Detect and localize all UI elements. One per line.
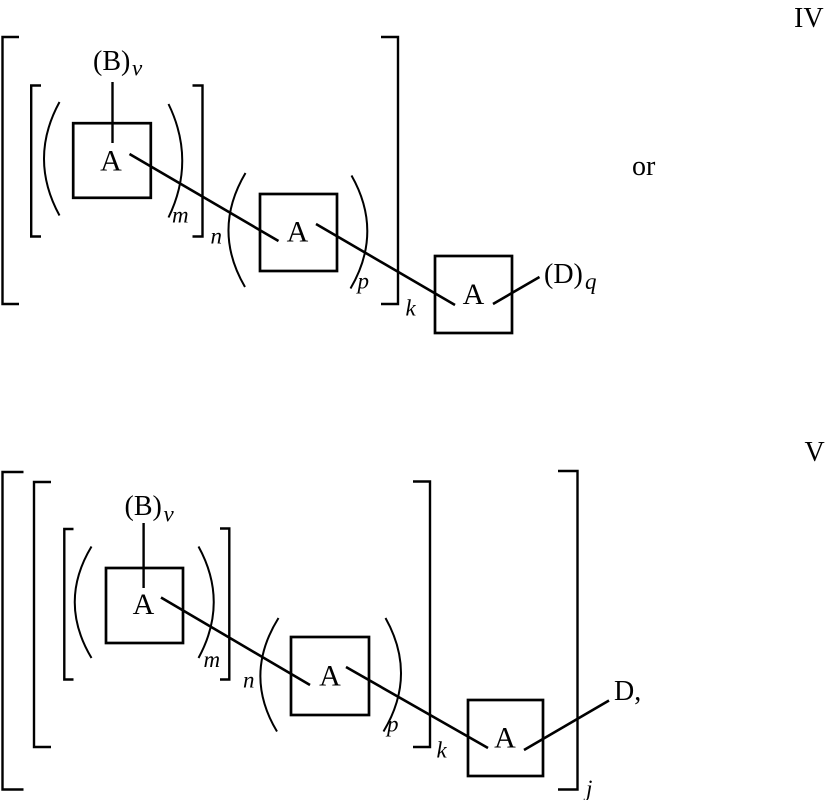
svg-text:A: A xyxy=(100,145,122,178)
svg-text:k: k xyxy=(437,738,448,763)
svg-text:V: V xyxy=(805,437,825,468)
svg-text:A: A xyxy=(319,660,341,693)
svg-text:A: A xyxy=(287,216,309,249)
svg-text:A: A xyxy=(133,588,155,621)
svg-text:A: A xyxy=(494,722,516,755)
svg-text:n: n xyxy=(243,668,255,693)
svg-text:(B): (B) xyxy=(93,46,130,77)
svg-text:q: q xyxy=(585,269,597,294)
svg-text:IV: IV xyxy=(794,3,824,34)
svg-text:(D): (D) xyxy=(544,259,583,290)
svg-text:or: or xyxy=(632,151,656,182)
svg-text:j: j xyxy=(583,776,592,800)
svg-text:n: n xyxy=(211,224,223,249)
svg-text:m: m xyxy=(204,647,221,672)
svg-text:A: A xyxy=(463,278,485,311)
svg-text:v: v xyxy=(132,56,143,81)
svg-text:k: k xyxy=(406,296,417,321)
svg-text:D,: D, xyxy=(614,676,641,707)
svg-text:p: p xyxy=(356,269,370,294)
svg-text:(B): (B) xyxy=(125,491,162,522)
svg-text:p: p xyxy=(385,712,399,737)
svg-text:v: v xyxy=(164,502,175,527)
svg-text:m: m xyxy=(172,203,189,228)
